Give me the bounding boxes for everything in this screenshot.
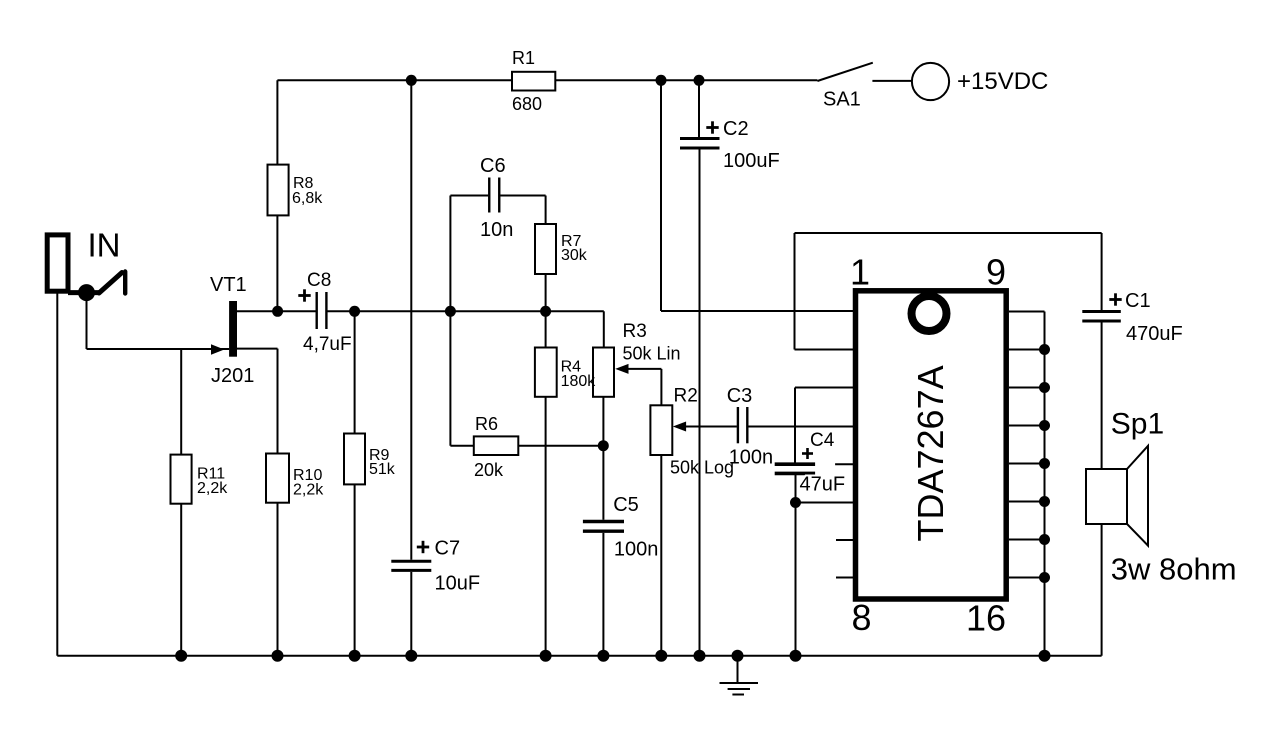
svg-text:SA1: SA1 [823, 89, 861, 111]
svg-text:+15VDC: +15VDC [957, 68, 1048, 95]
svg-text:3w 8ohm: 3w 8ohm [1111, 552, 1237, 587]
svg-text:C2: C2 [723, 118, 749, 140]
svg-text:51k: 51k [369, 461, 396, 478]
svg-text:IN: IN [88, 227, 121, 264]
svg-text:100n: 100n [729, 447, 774, 469]
svg-text:47uF: 47uF [800, 474, 846, 496]
svg-text:1: 1 [850, 252, 870, 293]
svg-text:100uF: 100uF [723, 150, 780, 172]
svg-text:50k Lin: 50k Lin [623, 344, 681, 364]
svg-text:C8: C8 [307, 270, 331, 291]
svg-text:10uF: 10uF [435, 573, 481, 595]
svg-text:TDA7267A: TDA7267A [910, 365, 951, 541]
svg-text:10n: 10n [480, 219, 513, 241]
svg-text:R1: R1 [512, 48, 535, 68]
svg-text:9: 9 [986, 252, 1006, 293]
svg-text:R3: R3 [623, 321, 647, 342]
svg-text:2,2k: 2,2k [197, 480, 228, 497]
svg-text:50k Log: 50k Log [670, 458, 734, 478]
svg-text:R6: R6 [475, 414, 498, 434]
svg-text:Sp1: Sp1 [1111, 408, 1164, 441]
svg-text:C1: C1 [1125, 290, 1151, 312]
svg-text:VT1: VT1 [210, 274, 247, 296]
svg-text:R2: R2 [674, 386, 698, 407]
svg-text:180k: 180k [561, 373, 597, 390]
svg-text:30k: 30k [561, 247, 588, 264]
svg-text:16: 16 [966, 598, 1006, 639]
svg-text:100n: 100n [614, 539, 659, 561]
svg-text:680: 680 [512, 94, 542, 114]
svg-text:8: 8 [851, 597, 871, 638]
svg-text:20k: 20k [474, 460, 504, 480]
svg-text:470uF: 470uF [1126, 323, 1183, 345]
svg-text:J201: J201 [211, 365, 254, 387]
svg-text:C5: C5 [613, 494, 639, 516]
svg-text:6,8k: 6,8k [292, 190, 323, 207]
svg-text:C6: C6 [480, 155, 506, 177]
svg-text:2,2k: 2,2k [293, 482, 324, 499]
svg-text:C4: C4 [810, 430, 835, 451]
svg-text:4,7uF: 4,7uF [303, 334, 352, 355]
svg-text:C3: C3 [727, 385, 753, 407]
svg-text:C7: C7 [435, 538, 461, 560]
